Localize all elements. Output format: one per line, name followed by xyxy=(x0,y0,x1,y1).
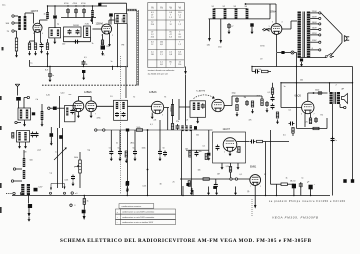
terminal sw a xyxy=(13,192,15,194)
capacitor C60 xyxy=(126,182,129,186)
svg-text:110: 110 xyxy=(151,54,154,56)
label value 50 xyxy=(173,182,175,184)
svg-text:+: + xyxy=(314,184,316,186)
wire tap 110V xyxy=(310,41,318,43)
label choke CH3 xyxy=(234,6,237,8)
label tube V9 xyxy=(250,166,257,169)
wire R8 chain xyxy=(272,94,274,96)
inductor choke CH3 xyxy=(235,9,238,19)
terminal ant ext xyxy=(27,96,29,98)
svg-text:4700: 4700 xyxy=(64,3,69,5)
svg-text:AP: AP xyxy=(342,88,345,91)
ground g3 xyxy=(215,191,218,196)
table voltage values xyxy=(151,12,182,66)
wire R23 right xyxy=(287,183,294,185)
capacitor C42 xyxy=(31,132,35,138)
svg-text:Tu AM FM: Tu AM FM xyxy=(196,90,205,93)
wire to V6 grid xyxy=(263,141,290,143)
capacitor C3 decoupling xyxy=(66,8,70,14)
wire V2 cath xyxy=(102,34,104,40)
svg-text:4700: 4700 xyxy=(73,3,78,5)
transformer T4 power primary xyxy=(298,12,301,58)
wire ant C to coil xyxy=(14,30,16,32)
wire V3 top link b xyxy=(78,96,91,98)
label value 20 xyxy=(244,97,247,99)
label value 18 xyxy=(212,98,215,100)
svg-text:S3: S3 xyxy=(234,6,237,8)
capacitor C57 xyxy=(186,183,189,186)
wire V2 plate up xyxy=(108,20,110,25)
wire drop x183 xyxy=(182,186,184,196)
inductor choke CH1 xyxy=(213,9,216,19)
switch mains S1 xyxy=(325,53,332,57)
legend sym3 xyxy=(117,217,118,219)
capacitor C49 xyxy=(214,183,218,189)
ground C37 xyxy=(134,157,137,162)
wire C11 up xyxy=(49,67,51,73)
wire T2 left drop xyxy=(63,37,65,42)
terminal pilot xyxy=(291,51,294,54)
svg-text:Vt: Vt xyxy=(169,5,172,9)
svg-text:110V: 110V xyxy=(312,40,317,42)
capacitor C27 in T7 xyxy=(70,109,74,115)
wire phono1 xyxy=(16,168,22,170)
label value 59 xyxy=(260,59,262,61)
ground R13 xyxy=(236,112,239,117)
wire T1 bottom gnd xyxy=(54,38,56,42)
label tap 0 xyxy=(312,48,314,50)
capacitor C13 bus xyxy=(82,70,85,73)
wire pot top xyxy=(79,152,81,160)
mark edge1 xyxy=(0,96,2,100)
wire drop x193 xyxy=(192,190,194,196)
label value 33 xyxy=(226,166,230,168)
svg-text:Ca: Ca xyxy=(30,63,33,65)
ground C36 xyxy=(119,157,122,162)
wire bus drop to AM xyxy=(125,67,127,99)
capacitor C48 coupling xyxy=(250,140,256,144)
resistor R14 xyxy=(251,101,253,107)
capacitor C29 in T8 xyxy=(122,112,126,117)
capacitor C12 bus xyxy=(82,60,86,66)
wire rail drop 150 xyxy=(220,19,222,40)
label C11 xyxy=(52,75,55,77)
svg-text:470k: 470k xyxy=(97,118,101,120)
wire V9 row xyxy=(180,178,250,180)
svg-text:T3: T3 xyxy=(164,97,166,99)
table header row xyxy=(151,5,181,9)
svg-text:200V: 200V xyxy=(312,16,317,18)
heptode V3a converter xyxy=(73,101,84,112)
wire tap 200V xyxy=(310,17,318,19)
svg-text:2p: 2p xyxy=(57,24,59,26)
terminal AF a xyxy=(103,129,105,131)
svg-text:160V: 160V xyxy=(312,22,317,24)
wire into T4 xyxy=(290,21,292,29)
label value 31 xyxy=(196,135,199,137)
label Rk xyxy=(107,46,109,48)
wire T10 gnd b xyxy=(25,142,27,144)
wire fb right up xyxy=(326,118,328,129)
inductor L20 xyxy=(23,158,26,167)
svg-text:S1: S1 xyxy=(212,6,215,8)
svg-text:300: 300 xyxy=(6,23,10,25)
ground L12 xyxy=(41,122,44,127)
inductor L16 IF choke xyxy=(171,104,174,116)
rectifier V5 xyxy=(271,24,282,35)
inductor L7 winding xyxy=(86,28,88,37)
wire fb loop bottom xyxy=(297,128,328,130)
junction J15 xyxy=(296,82,297,83)
terminal phono 2 xyxy=(11,180,13,182)
svg-text:condensatore a carta 600V aume: condensatore a carta 600V aumentato xyxy=(122,211,154,214)
wire C2 up xyxy=(54,6,56,15)
capacitor C59 xyxy=(82,210,86,214)
label C37 xyxy=(133,148,135,150)
terminal aux1 xyxy=(230,178,232,180)
ground C40 xyxy=(126,187,129,192)
wire C59 down xyxy=(83,213,85,216)
svg-text:6AQ5: 6AQ5 xyxy=(295,95,302,98)
ground ant xyxy=(15,53,18,58)
dashed switch link xyxy=(6,193,13,195)
svg-text:0,5: 0,5 xyxy=(84,57,87,59)
label 7x30 xyxy=(85,24,90,26)
wire C4 down xyxy=(75,13,77,18)
dotted AM-FM link xyxy=(120,56,122,194)
label C55 xyxy=(335,140,337,142)
wire L12 down gnd xyxy=(41,120,43,124)
terminal tap 0 xyxy=(319,49,321,51)
label 1000 a xyxy=(115,18,117,22)
label pin 9 xyxy=(236,152,237,154)
junction J24 xyxy=(310,195,311,196)
transformer T4 core xyxy=(303,12,305,58)
wire V2 k2 xyxy=(109,34,111,43)
wire V2 grid xyxy=(93,28,102,30)
title text xyxy=(60,238,312,244)
label value 39 xyxy=(131,142,135,145)
svg-text:log: log xyxy=(88,150,91,152)
capacitor C14 filter xyxy=(227,23,231,29)
wire C26 right xyxy=(57,107,65,109)
speaker LS1 xyxy=(342,94,348,104)
svg-text:condensatore ceramico: condensatore ceramico xyxy=(122,205,142,208)
resistor R20 xyxy=(238,147,240,153)
wire V6 cath down xyxy=(304,113,306,127)
wire rail left drop xyxy=(208,19,210,38)
resistor R12 grid leak xyxy=(292,128,294,134)
wire audio rail xyxy=(281,82,353,84)
terminal AF b xyxy=(95,129,97,131)
indicator V9 xyxy=(250,175,261,186)
resistor R9 xyxy=(276,112,278,118)
svg-text:100k: 100k xyxy=(142,148,146,150)
transformer T1 FM interstage box xyxy=(49,28,61,38)
svg-text:osc: osc xyxy=(69,94,72,96)
wire tap 0 xyxy=(310,49,318,51)
svg-text:Cp: Cp xyxy=(50,173,52,175)
wire term to C26 xyxy=(50,107,53,109)
mark edge3 xyxy=(0,183,2,188)
capacitor C46 grid xyxy=(216,145,220,151)
wire tap 125V xyxy=(310,34,318,36)
diode-detector V7 xyxy=(212,99,224,111)
label pin1 xyxy=(269,26,270,28)
wire V3 top link xyxy=(77,97,79,101)
transformer T11 secondary xyxy=(27,184,30,195)
resistor R27 xyxy=(205,154,207,160)
label value 43 xyxy=(88,150,91,152)
junction J7 xyxy=(49,66,50,67)
wire V5 B down xyxy=(276,44,278,52)
wire OT right down xyxy=(339,104,341,108)
wire T6 gnd xyxy=(24,120,26,124)
label 500k xyxy=(137,127,141,129)
wire pilot link xyxy=(277,52,292,54)
capacitor C18 coupling xyxy=(254,70,260,74)
capacitor C25 padder xyxy=(32,112,35,115)
label tap 220V xyxy=(312,11,317,13)
svg-text:250: 250 xyxy=(151,37,154,39)
wire plate to OT xyxy=(308,92,328,94)
wire L4 down xyxy=(92,17,94,24)
label tuning xyxy=(196,90,205,93)
junction J14 xyxy=(280,82,281,83)
label tap 140V xyxy=(312,27,317,29)
label value 55 xyxy=(154,120,157,122)
junction J22 xyxy=(276,195,277,196)
junction J6 xyxy=(92,5,93,6)
resistor R2 cathode xyxy=(28,43,30,50)
wire V1 plate up xyxy=(39,20,41,24)
wire T10 gnd a xyxy=(19,142,21,144)
ground C60 xyxy=(126,188,129,193)
label value 51 xyxy=(198,170,201,172)
label 6,3V xyxy=(39,187,44,189)
label pin 3 xyxy=(112,35,113,37)
capacitor C56 xyxy=(213,186,216,189)
legend box xyxy=(116,204,176,225)
label value 32 xyxy=(203,146,206,148)
label 4700 b xyxy=(73,3,78,5)
output pentode V6 xyxy=(302,101,314,113)
svg-text:5-40: 5-40 xyxy=(61,93,65,95)
capacitor C53 xyxy=(343,179,346,183)
ground C13 xyxy=(82,76,85,81)
label 300ohm xyxy=(6,23,10,25)
svg-text:1,2: 1,2 xyxy=(169,17,172,19)
label tap 200V xyxy=(312,16,317,18)
transformer T10 box xyxy=(17,131,30,143)
capacitor C24 ant series xyxy=(16,97,21,101)
label pin 8 xyxy=(224,152,225,154)
svg-text:220V: 220V xyxy=(312,11,317,13)
label value 17 xyxy=(150,124,153,126)
wire ant B to coil xyxy=(14,22,18,24)
wire bus drop x92.5 xyxy=(92,6,94,10)
svg-text:O: O xyxy=(74,205,76,207)
inductor L24 det coil c xyxy=(190,125,192,131)
junction AF xyxy=(147,129,149,131)
wire g1 xyxy=(190,187,192,191)
label value 46 xyxy=(50,173,52,175)
label 4700 a xyxy=(64,3,69,5)
note philips fuses xyxy=(269,200,346,203)
wire V6 plate up xyxy=(307,93,309,101)
arrow V9 xyxy=(254,205,257,209)
resistor R25 under L16 xyxy=(171,124,173,130)
terminal tap 110V xyxy=(319,41,321,43)
label T2 xyxy=(73,25,80,27)
label value 35 xyxy=(240,174,243,176)
wire T4 bottom xyxy=(298,57,327,59)
label pin 13 xyxy=(95,114,96,116)
wire R29 down xyxy=(230,172,232,178)
junction J13 xyxy=(296,66,297,67)
wire R24 C59 xyxy=(83,204,85,209)
wire V4 k xyxy=(151,113,153,115)
label value 27 xyxy=(289,110,292,112)
label value 54 xyxy=(24,151,27,154)
svg-text:25: 25 xyxy=(173,182,175,184)
svg-text:0,5: 0,5 xyxy=(268,92,271,94)
wire T4 bottom2 xyxy=(332,56,335,58)
capacitor C2 feedthrough xyxy=(53,15,57,18)
wire pot down xyxy=(79,173,81,188)
ground C15 xyxy=(251,30,254,35)
ground V3a xyxy=(77,114,80,119)
junction J23 xyxy=(293,195,294,196)
wire B+ bus left xyxy=(30,66,127,68)
svg-text:7: 7 xyxy=(314,114,315,116)
wire selector top diag xyxy=(321,13,342,35)
svg-text:se prodotti Philips inserire: se prodotti Philips inserire F1=250 e F2… xyxy=(269,200,346,203)
svg-text:Ral 50k: Ral 50k xyxy=(255,69,261,71)
dot pilot xyxy=(292,52,293,53)
svg-text:1a: 1a xyxy=(52,75,55,77)
inductor L5 in T1 xyxy=(51,30,53,37)
svg-text:FM: FM xyxy=(122,45,125,47)
wire x352 drop xyxy=(352,83,354,181)
svg-text:1M: 1M xyxy=(244,97,247,99)
svg-text:5n: 5n xyxy=(116,143,118,145)
label value 7 xyxy=(111,61,113,63)
label pin8 xyxy=(269,31,270,33)
svg-text:5n: 5n xyxy=(118,148,120,150)
wire fuse to V5 xyxy=(266,28,271,30)
ground T10 a xyxy=(18,144,21,149)
svg-text:250: 250 xyxy=(151,24,154,26)
label value 57 xyxy=(249,120,252,122)
svg-text:1,2: 1,2 xyxy=(178,24,181,26)
capacitor C35 xyxy=(109,150,113,156)
label value 8 xyxy=(69,94,72,96)
svg-text:1: 1 xyxy=(260,186,261,188)
capacitor C22 cathode xyxy=(314,117,318,123)
wire main gnd bus xyxy=(12,195,330,197)
label pin 6 xyxy=(301,114,302,116)
wire C52 down xyxy=(300,187,302,196)
wire AM ant down xyxy=(17,91,19,96)
svg-text:12BA6: 12BA6 xyxy=(149,91,157,94)
terminal out a xyxy=(71,192,73,194)
wire V3b k xyxy=(90,112,92,114)
wire det rowb xyxy=(232,95,262,97)
junction x147 mid xyxy=(147,169,149,171)
wire bus left drop xyxy=(29,60,31,67)
pentode V4 IF amp xyxy=(151,101,163,113)
junction J21 xyxy=(265,195,266,196)
junction J12 xyxy=(47,66,48,67)
ground g4 xyxy=(234,191,237,196)
inductor L6 in T1 xyxy=(57,30,59,37)
svg-text:2: 2 xyxy=(74,114,75,116)
wire det down xyxy=(261,96,263,99)
label value 30 xyxy=(321,115,323,117)
capacitor C9 coupling xyxy=(74,40,80,44)
terminal tap 125V xyxy=(319,34,321,36)
arrow diag b xyxy=(64,187,66,190)
fuse F1 xyxy=(264,28,270,31)
resistor R18 left xyxy=(12,133,14,139)
wire C47 v xyxy=(208,130,210,153)
label C35 xyxy=(109,148,111,150)
svg-text:110: 110 xyxy=(178,64,181,66)
svg-text:=: = xyxy=(117,212,118,214)
wire C60 link xyxy=(126,186,128,196)
ground C1 xyxy=(40,49,43,54)
wire tall x59.5 xyxy=(59,96,61,128)
label value 11 xyxy=(46,95,50,97)
wire C2 down xyxy=(54,19,56,28)
svg-text:3: 3 xyxy=(33,33,34,35)
svg-text:125: 125 xyxy=(305,122,308,124)
label tap 160V xyxy=(312,22,317,24)
wire V3b top xyxy=(90,97,92,101)
label value 45 xyxy=(30,160,33,162)
arrow B+ 150 xyxy=(220,40,223,44)
terminal AM in xyxy=(48,107,50,109)
resistor R11 cathode xyxy=(309,118,311,124)
wire box to V9 xyxy=(230,163,232,167)
arrow B+ takeoff xyxy=(184,71,187,75)
capacitor C61 under L16 xyxy=(176,124,180,130)
ground C35 xyxy=(110,157,113,162)
svg-text:5: 5 xyxy=(162,115,163,117)
wire T8 out xyxy=(128,105,153,107)
label value 28 xyxy=(283,135,286,137)
inductor L4 choke xyxy=(91,10,94,17)
svg-text:12a: 12a xyxy=(2,5,6,7)
inductor L13 in T7 xyxy=(66,108,68,116)
svg-text:6,3: 6,3 xyxy=(169,37,172,39)
mark edge2 xyxy=(0,126,2,130)
junction plate xyxy=(313,92,315,94)
label pin 5 xyxy=(282,22,283,24)
capacitor C40 xyxy=(126,181,129,185)
label value 25 xyxy=(315,90,319,92)
junction J3 xyxy=(67,5,68,6)
wire L2 top to grid xyxy=(24,13,26,16)
wire B+ col link xyxy=(271,183,277,185)
label value 12 xyxy=(97,118,101,120)
svg-text:3,3k: 3,3k xyxy=(226,166,230,168)
svg-text:110: 110 xyxy=(178,37,181,39)
label tube V1 12DT8 xyxy=(31,10,39,13)
label tap 125V xyxy=(312,33,317,35)
label C14 xyxy=(231,26,233,28)
